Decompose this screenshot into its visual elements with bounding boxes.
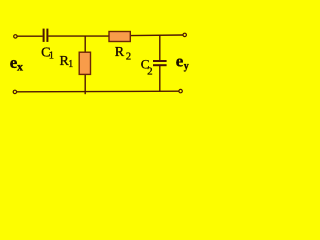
svg-text:1: 1 <box>68 59 73 70</box>
svg-text:x: x <box>17 60 23 74</box>
svg-text:2: 2 <box>126 51 131 62</box>
svg-text:R: R <box>115 45 125 60</box>
svg-text:y: y <box>184 61 189 72</box>
svg-text:2: 2 <box>147 66 153 78</box>
svg-text:1: 1 <box>49 51 54 62</box>
svg-text:e: e <box>176 52 184 71</box>
